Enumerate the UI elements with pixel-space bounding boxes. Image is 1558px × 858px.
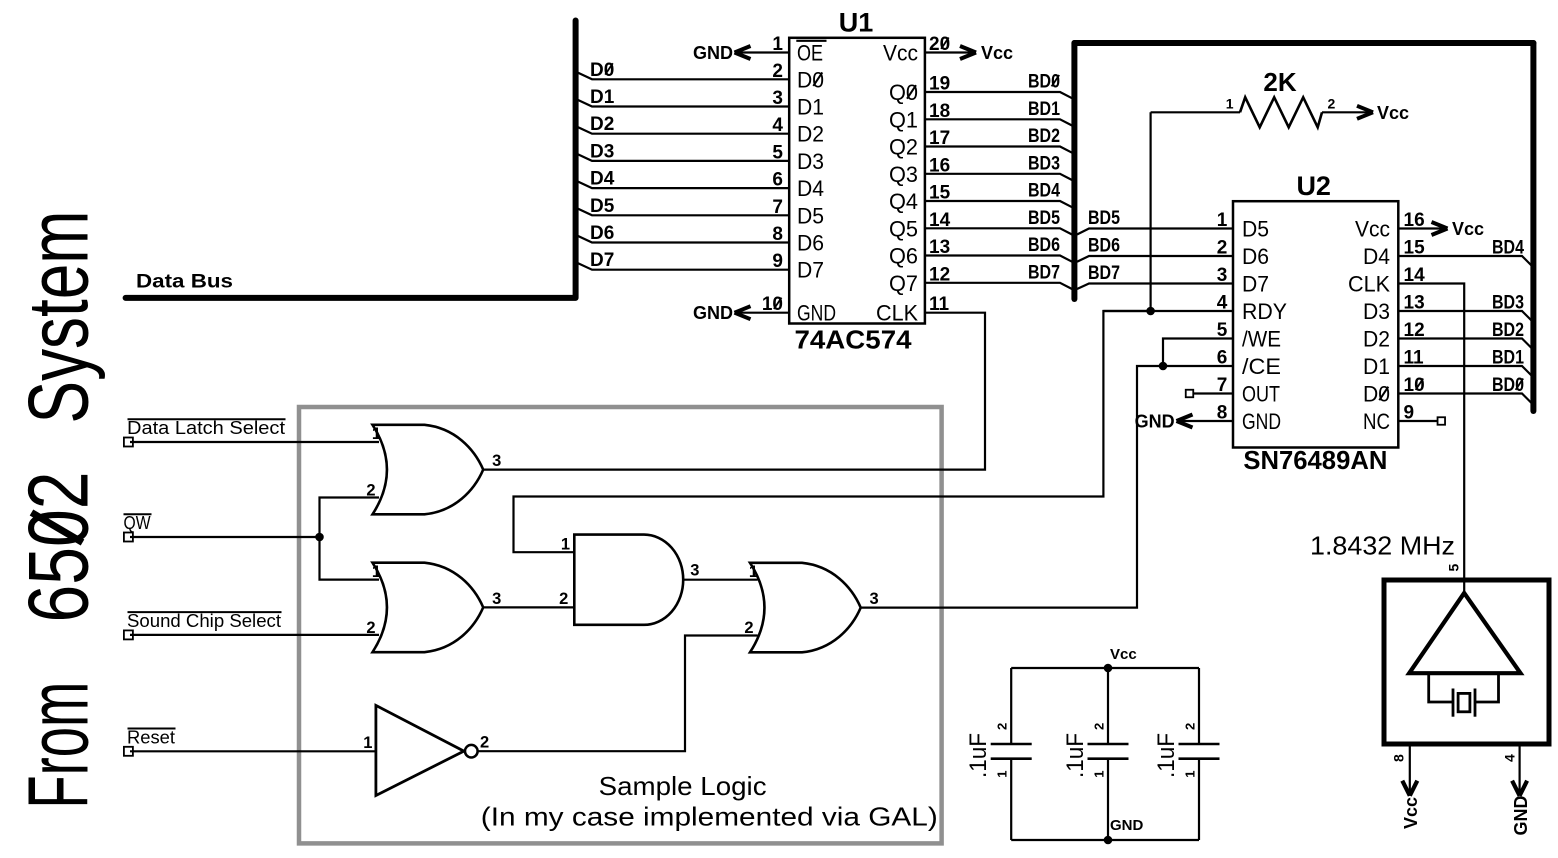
svg-text:1: 1 <box>1183 771 1198 778</box>
wire QW to OR1 in2 <box>320 498 380 538</box>
svg-text:D2: D2 <box>1363 327 1390 352</box>
svg-text:D1: D1 <box>590 87 615 108</box>
wire BD2 (U2 pin 12 to right bus) <box>1398 339 1533 350</box>
svg-text:2: 2 <box>995 723 1010 730</box>
svg-text:2: 2 <box>366 619 375 637</box>
wire resistor to Vcc <box>1322 111 1373 113</box>
crystal body rect <box>1458 693 1470 711</box>
label .1uF (C2) <box>1062 733 1089 778</box>
oscillator amplifier triangle <box>1409 593 1520 673</box>
svg-text:D7: D7 <box>1242 272 1269 297</box>
wire U2 pin 7 OUT stub <box>1193 392 1233 394</box>
svg-text:2: 2 <box>1183 723 1198 730</box>
svg-text:D2: D2 <box>797 122 824 147</box>
wire OR3 out to /CE (U2 pin 6) <box>861 366 1233 608</box>
svg-text:1: 1 <box>372 563 381 581</box>
junction dot QW <box>315 533 324 542</box>
svg-text:D3: D3 <box>797 149 824 174</box>
wire D3 (bus to U1 pin 5) <box>577 154 789 161</box>
svg-text:OUT: OUT <box>1242 382 1280 407</box>
junction dot /WE-/CE tie <box>1159 362 1168 371</box>
svg-text:D0: D0 <box>797 67 824 92</box>
capacitor C2 branch (bottom) <box>1107 759 1109 840</box>
svg-text:1: 1 <box>1226 95 1234 111</box>
svg-text:Reset: Reset <box>127 726 175 747</box>
svg-text:.1uF: .1uF <box>965 733 992 778</box>
svg-text:CLK: CLK <box>876 301 918 326</box>
svg-text:BD3: BD3 <box>1028 153 1060 174</box>
capacitor C1 plate (bottom) <box>991 757 1032 760</box>
wire resistor R1 pin1 down to RDY net <box>1149 112 1151 311</box>
G5 output bubble <box>465 745 478 758</box>
capacitor C2 plate (bottom) <box>1088 757 1129 760</box>
junction dot (RDY / 2K / AND input net) <box>1146 307 1155 316</box>
AND gate G3 <box>574 535 683 625</box>
svg-text:D6: D6 <box>797 231 824 256</box>
capacitor C1 branch (bottom) <box>1010 759 1012 840</box>
label From 6502 System (rotated) <box>12 682 107 809</box>
svg-text:Vcc: Vcc <box>1377 103 1409 123</box>
crystal plate (right) <box>1474 689 1477 717</box>
svg-text:/WE: /WE <box>1242 327 1281 352</box>
svg-text:1.8432 MHz: 1.8432 MHz <box>1310 531 1455 561</box>
wire BD6 (bus to U2 pin 2) <box>1077 256 1233 262</box>
svg-text:D5: D5 <box>1242 217 1269 242</box>
input pad Sound Chip Select <box>124 630 133 639</box>
svg-text:/CE: /CE <box>1242 354 1281 379</box>
label Data Latch Select (with overline) <box>128 418 286 420</box>
inverter/buffer G5 (Reset) <box>376 705 464 795</box>
svg-text:.1uF: .1uF <box>1153 733 1180 778</box>
svg-text:System: System <box>12 211 107 424</box>
wire BD4 (U2 pin 15 to right bus) <box>1398 256 1533 267</box>
svg-text:Q7: Q7 <box>889 271 918 296</box>
svg-text:3: 3 <box>690 562 699 580</box>
svg-text:2: 2 <box>480 733 489 751</box>
svg-text:OE: OE <box>797 41 823 66</box>
label Reset (with overline) <box>128 728 176 730</box>
wire Reset to inverter in <box>130 750 375 752</box>
power symbol arrow Vcc (U1 pin 20) <box>960 46 976 53</box>
wire Sound Chip Select to OR2 in2 <box>130 634 379 636</box>
svg-text:D7: D7 <box>590 250 614 271</box>
wire BD6 (U1 Q6 pin 13 to bus) <box>925 256 1072 262</box>
svg-text:Vcc: Vcc <box>883 41 918 66</box>
wire Data Latch Select to OR1 in1 <box>130 441 379 443</box>
overline OE (pin 1 active low) <box>796 40 826 42</box>
OR gate G4 (to /WE /CE) <box>750 563 861 653</box>
wire inverter out to OR3 in2 <box>478 636 758 752</box>
svg-text:BD7: BD7 <box>1028 262 1060 283</box>
svg-text:2: 2 <box>1217 238 1228 259</box>
svg-text:From: From <box>12 682 107 809</box>
svg-text:D0: D0 <box>590 60 614 81</box>
svg-text:Sample Logic: Sample Logic <box>599 771 767 801</box>
wire U2 pin 16 to Vcc <box>1398 227 1447 229</box>
svg-text:.1uF: .1uF <box>1062 733 1089 778</box>
svg-text:BD6: BD6 <box>1088 236 1120 257</box>
oscillator pin number 8 <box>1390 754 1406 762</box>
C1 pin number 2 <box>995 723 1010 730</box>
svg-text:BD2: BD2 <box>1492 320 1524 341</box>
wire OR2 out to AND in2 <box>483 606 574 608</box>
capacitor C3 branch (top) <box>1198 668 1200 744</box>
svg-text:D6: D6 <box>590 223 614 244</box>
svg-text:D1: D1 <box>1363 354 1390 379</box>
wire AND out to OR3 in1 <box>683 579 757 581</box>
wire BD7 (U1 Q7 pin 12 to bus) <box>925 283 1072 289</box>
wire OR1 out to U1 CLK pin 11 <box>483 313 985 470</box>
svg-text:BD3: BD3 <box>1492 293 1524 314</box>
wire U2 RDY pin 4 to resistor node <box>1103 310 1233 312</box>
svg-text:BD4: BD4 <box>1492 238 1524 259</box>
oscillator X1 body <box>1384 580 1549 744</box>
svg-text:5: 5 <box>772 142 783 163</box>
capacitor C2 branch (top) <box>1107 668 1109 744</box>
wire BD5 (bus to U2 pin 1) <box>1077 229 1233 235</box>
svg-text:Q0: Q0 <box>889 80 918 105</box>
OR gate G2 (QW OR sound chip select) <box>373 563 484 653</box>
label GND (osc pin 4, rotated) <box>1511 796 1531 836</box>
svg-text:BD7: BD7 <box>1088 263 1120 284</box>
svg-text:Q1: Q1 <box>889 107 918 132</box>
svg-text:BD6: BD6 <box>1028 235 1060 256</box>
svg-text:BD4: BD4 <box>1028 181 1060 202</box>
svg-text:2K: 2K <box>1263 67 1296 97</box>
capacitor rail GND (bottom) <box>1011 839 1199 841</box>
svg-text:Q6: Q6 <box>889 244 918 269</box>
svg-text:(In my case implemented via GA: (In my case implemented via GAL) <box>481 802 938 832</box>
svg-text:Vcc: Vcc <box>1110 646 1137 663</box>
input pad QW <box>124 533 133 542</box>
svg-text:2: 2 <box>1092 723 1107 730</box>
svg-text:3: 3 <box>1217 265 1228 286</box>
svg-text:Data Bus: Data Bus <box>136 272 233 293</box>
wire BD1 (U1 Q1 pin 18 to bus) <box>925 119 1072 125</box>
svg-text:SN76489AN: SN76489AN <box>1243 445 1387 475</box>
svg-text:GND: GND <box>1242 409 1281 434</box>
wire QW to OR2 in1 <box>320 537 380 580</box>
svg-text:6: 6 <box>772 170 783 191</box>
svg-text:2: 2 <box>744 619 753 637</box>
wire BD0 (U2 pin 10 to right bus) <box>1398 394 1533 405</box>
wire oscillator pin 8 (Vcc) <box>1409 744 1411 796</box>
svg-text:9: 9 <box>772 251 783 272</box>
wire BD1 (U2 pin 11 to right bus) <box>1398 366 1533 377</box>
wire U1 pin 10 to GND <box>735 312 790 314</box>
svg-text:BD5: BD5 <box>1088 208 1120 229</box>
label .1uF (C3) <box>1153 733 1180 778</box>
wire U2 pin 9 NC stub <box>1398 420 1437 422</box>
svg-text:Vcc: Vcc <box>1452 219 1484 239</box>
ground symbol arrow (U1 pin 10) <box>735 306 751 313</box>
svg-text:CLK: CLK <box>1348 272 1390 297</box>
svg-text:D2: D2 <box>590 114 614 135</box>
capacitor C3 plate (bottom) <box>1179 757 1220 760</box>
svg-text:D3: D3 <box>590 141 614 162</box>
svg-text:Vcc: Vcc <box>1401 797 1421 829</box>
open connection pad (NC) <box>1438 417 1446 425</box>
svg-text:D6: D6 <box>1242 244 1269 269</box>
svg-text:Sound Chip Select: Sound Chip Select <box>127 610 281 631</box>
crystal lead (left) <box>1429 673 1453 702</box>
open connection pad (OUT) <box>1186 390 1194 398</box>
power symbol arrow Vcc (U2 pin 16) <box>1432 222 1448 229</box>
svg-text:2: 2 <box>1328 95 1336 111</box>
svg-text:GND: GND <box>693 303 733 323</box>
oscillator pin number 4 <box>1502 754 1518 762</box>
C1 pin number 1 <box>995 771 1010 778</box>
svg-text:7: 7 <box>772 197 783 218</box>
input pad Reset <box>124 747 133 756</box>
input pad Data Latch Select <box>124 438 133 447</box>
svg-text:1: 1 <box>995 771 1010 778</box>
svg-text:RDY: RDY <box>1242 299 1287 324</box>
svg-text:8: 8 <box>1390 754 1406 762</box>
svg-text:BD1: BD1 <box>1492 348 1524 369</box>
label Vcc (osc pin 8, rotated) <box>1401 797 1421 829</box>
bus (right vertical) <box>1530 43 1536 411</box>
svg-text:U2: U2 <box>1296 171 1331 201</box>
Sample Logic box <box>299 407 942 843</box>
svg-text:BD5: BD5 <box>1028 208 1060 229</box>
svg-text:QW: QW <box>124 512 151 533</box>
svg-text:NC: NC <box>1363 409 1390 434</box>
C2 pin number 2 <box>1092 723 1107 730</box>
power symbol arrow Vcc (2K) <box>1357 106 1373 113</box>
svg-text:2: 2 <box>772 61 783 82</box>
svg-text:D3: D3 <box>1363 299 1390 324</box>
power symbol arrow down (osc Vcc) <box>1402 781 1410 796</box>
ground symbol arrow (U2 pin 8) <box>1177 415 1193 422</box>
IC U1 74AC574 body <box>789 38 925 324</box>
svg-text:74AC574: 74AC574 <box>795 325 913 355</box>
capacitor C3 plate (top) <box>1179 743 1220 746</box>
svg-text:GND: GND <box>693 43 733 63</box>
wire D5 (bus to U1 pin 7) <box>577 208 789 215</box>
svg-text:4: 4 <box>772 115 783 136</box>
resistor 2K lead (left) <box>1151 111 1240 113</box>
capacitor rail Vcc (top) <box>1011 667 1199 669</box>
svg-text:Vcc: Vcc <box>1355 217 1390 242</box>
svg-text:BD1: BD1 <box>1028 99 1060 120</box>
ground symbol arrow (U1 pin 1) <box>735 46 751 53</box>
svg-text:3: 3 <box>492 452 501 470</box>
wire BD2 (U1 Q2 pin 17 to bus) <box>925 147 1072 153</box>
svg-text:2: 2 <box>366 481 375 499</box>
wire BD4 (U1 Q4 pin 15 to bus) <box>925 201 1072 207</box>
wire BD7 (bus to U2 pin 3) <box>1077 284 1233 290</box>
wire /WE (U2 pin 5) tie to /CE <box>1163 339 1233 367</box>
svg-text:4: 4 <box>1502 754 1518 762</box>
svg-text:3: 3 <box>772 88 783 109</box>
wire oscillator pin 4 (GND) <box>1518 744 1520 796</box>
svg-text:Q5: Q5 <box>889 216 918 241</box>
wire U1 pin 20 to Vcc <box>925 51 976 53</box>
bus (vertical, BD0-BD7) <box>1071 43 1077 299</box>
svg-text:U1: U1 <box>839 8 874 38</box>
svg-text:GND: GND <box>1135 412 1175 432</box>
capacitor C1 plate (top) <box>991 743 1032 746</box>
oscillator pin number 5 <box>1446 564 1462 572</box>
svg-text:1: 1 <box>363 734 372 752</box>
wire BD5 (U1 Q5 pin 14 to bus) <box>925 228 1072 234</box>
svg-text:GND: GND <box>1110 817 1144 834</box>
OR gate G1 (latch select OR QW) <box>373 425 484 514</box>
wire RDY net to AND in1 <box>514 311 1151 552</box>
svg-text:3: 3 <box>492 590 501 608</box>
svg-text:Vcc: Vcc <box>981 43 1013 63</box>
svg-text:1: 1 <box>749 563 758 581</box>
crystal plate (left) <box>1452 689 1455 717</box>
wire BD3 (U1 Q3 pin 16 to bus) <box>925 174 1072 180</box>
label QW (with overline) <box>124 513 152 515</box>
svg-text:D5: D5 <box>797 203 824 228</box>
svg-text:GND: GND <box>1511 796 1531 836</box>
junction dot Vcc rail <box>1104 664 1113 673</box>
wire D4 (bus to U1 pin 6) <box>577 181 789 188</box>
capacitor C1 branch (top) <box>1010 668 1012 744</box>
svg-text:D0: D0 <box>1363 382 1390 407</box>
svg-text:3: 3 <box>870 590 879 608</box>
C2 pin number 1 <box>1092 771 1107 778</box>
C3 pin number 2 <box>1183 723 1198 730</box>
svg-text:6502: 6502 <box>12 472 107 623</box>
label Sound Chip Select (with overline) <box>128 611 282 613</box>
bus (top horizontal) <box>1074 40 1533 46</box>
svg-text:1: 1 <box>561 536 570 554</box>
svg-text:D1: D1 <box>797 95 824 120</box>
svg-text:Q3: Q3 <box>889 162 918 187</box>
C3 pin number 1 <box>1183 771 1198 778</box>
svg-text:D4: D4 <box>590 169 615 190</box>
svg-text:BD2: BD2 <box>1028 126 1060 147</box>
svg-text:Q4: Q4 <box>889 189 918 214</box>
bus Data Bus <box>126 21 576 298</box>
svg-text:D4: D4 <box>1363 244 1390 269</box>
wire BD0 (U1 Q0 pin 19 to bus) <box>925 92 1072 98</box>
svg-text:Q2: Q2 <box>889 135 918 160</box>
svg-text:8: 8 <box>772 224 783 245</box>
wire D0 (bus to U1 pin 2) <box>577 72 789 79</box>
junction dot GND rail <box>1104 836 1113 845</box>
svg-text:1: 1 <box>1092 771 1107 778</box>
capacitor C3 branch (bottom) <box>1198 759 1200 840</box>
wire D7 (bus to U1 pin 9) <box>577 263 789 270</box>
label .1uF (C1) <box>965 733 992 778</box>
wire D6 (bus to U1 pin 8) <box>577 236 789 243</box>
svg-text:1: 1 <box>1217 210 1228 231</box>
IC U2 SN76489AN body <box>1233 201 1398 447</box>
resistor 2K body <box>1240 97 1322 127</box>
wire U2 pin 8 to GND <box>1177 420 1234 422</box>
crystal lead (right) <box>1475 673 1499 702</box>
svg-text:1: 1 <box>372 425 381 443</box>
wire U2 CLK pin 14 to oscillator pin 5 <box>1398 284 1464 594</box>
wire D1 (bus to U1 pin 3) <box>577 100 789 107</box>
svg-text:2: 2 <box>559 590 568 608</box>
wire QW <box>130 536 320 538</box>
wire D2 (bus to U1 pin 4) <box>577 127 789 134</box>
wire U1 pin 1 to GND <box>735 51 790 53</box>
wire BD3 (U2 pin 13 to right bus) <box>1398 311 1533 322</box>
svg-text:GND: GND <box>797 301 836 326</box>
svg-text:5: 5 <box>1446 564 1462 572</box>
svg-text:D5: D5 <box>590 196 615 217</box>
capacitor C2 plate (top) <box>1088 743 1129 746</box>
ground symbol arrow down (osc GND) <box>1512 781 1520 796</box>
svg-text:D7: D7 <box>797 258 824 283</box>
svg-text:Data Latch Select: Data Latch Select <box>127 417 285 438</box>
svg-text:D4: D4 <box>797 176 824 201</box>
